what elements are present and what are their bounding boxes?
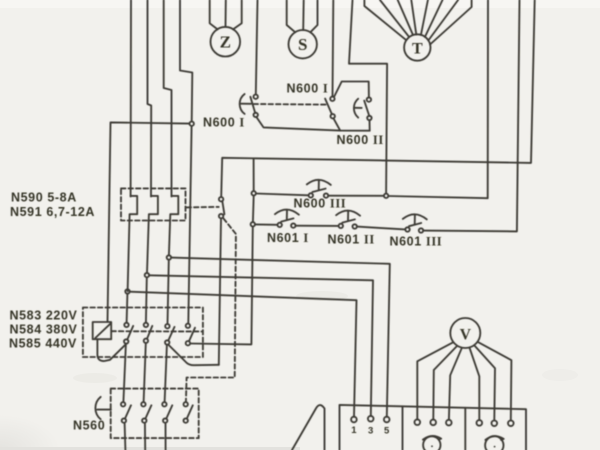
voltage selector N583 dashed box: [83, 308, 203, 358]
N560 switch T4 blade: [187, 405, 193, 418]
terminal box assembly: [340, 405, 527, 450]
N560 switch T2 bottom contact: [142, 418, 146, 422]
main lever symbol: [292, 405, 325, 450]
right line R3 (to trip-switch horizontal): [221, 0, 535, 197]
trip switch blade: [222, 201, 224, 214]
mechanical dashed link N600 I left to middle: [254, 103, 327, 106]
switch N600 II actuator tick: [355, 107, 362, 109]
paper shading: [0, 0, 1, 1]
switch N601 II actuator: [336, 211, 360, 221]
wire S1 bottom down to N560: [123, 344, 126, 403]
node F (E1 output junction): [125, 289, 129, 293]
switch block N560 dashed box: [111, 389, 199, 439]
dashed trip linkage N590 to trip switch: [187, 206, 219, 209]
selector switch S4 top contact: [186, 324, 190, 328]
voltmeter terminal f: [508, 421, 514, 427]
selector switch S1 bottom contact: [124, 339, 128, 343]
wire L2 (phase line into overload element E2, jog): [148, 0, 152, 197]
svg-text:N591 6,7-12A: N591 6,7-12A: [10, 205, 95, 219]
switch N601 III right contact: [419, 228, 423, 232]
switch N600 III right contact: [324, 193, 328, 197]
scan smudges: [296, 291, 348, 301]
vertical from node C down to N583 switch4 bottom wire: [190, 227, 253, 345]
switch N600 I (middle) blade: [325, 99, 332, 115]
wire N600 I middle top to N600 II top: [334, 82, 369, 98]
voltmeter terminal a: [415, 419, 421, 425]
wire S3 bottom down to N560: [165, 345, 167, 403]
N560 switch T4 bottom contact: [184, 418, 188, 422]
N560 switch T2 top contact: [141, 402, 145, 406]
switch N601 II blade: [342, 219, 355, 222]
branch diagonal up to N600 I (middle) bottom contact: [333, 118, 340, 130]
N600 III row wire right: [328, 195, 384, 197]
node B (junction above N600 III row): [252, 191, 256, 195]
switch N600 I (middle) bottom contact: [331, 114, 335, 118]
wire S3 bottom to trip-switch vertical: [168, 345, 219, 366]
wire from node A to voltage-selector square: [108, 122, 190, 321]
N560 switch T1 bottom contact: [122, 418, 126, 422]
selector switch S3 blade: [168, 327, 174, 341]
switch N601 I right contact: [291, 223, 295, 227]
motor Z: [211, 27, 241, 57]
motor Z leads: [210, 0, 218, 29]
wire from N600 I (left) bottom contact to bottom rail: [256, 117, 369, 131]
N560 switch T3 bottom contact: [163, 418, 167, 422]
wire L4 lower segment (node A down to N583 switch 4 top): [188, 126, 191, 324]
motor S leads: [287, 0, 296, 32]
long wire 1: node D to terminal 5: [171, 258, 390, 417]
svg-text:T: T: [412, 41, 423, 58]
wire square bottom U-turn to switch1 bottom: [97, 339, 125, 361]
transformer T: [404, 34, 430, 60]
N560 switch T1 top contact: [121, 402, 125, 406]
branch from R3 horizontal down to node B: [253, 158, 255, 191]
selector switch S3 bottom contact: [165, 340, 169, 344]
svg-text:N584 380V: N584 380V: [10, 323, 78, 337]
voltmeter lead 6: [478, 342, 511, 420]
svg-text:N600 II: N600 II: [337, 133, 384, 147]
voltmeter terminal e: [492, 421, 498, 427]
node C (junction on N601 row): [251, 222, 255, 226]
switch N601 III blade: [409, 223, 421, 226]
voltmeter V: [450, 318, 480, 348]
wire node F down to N583 switch1: [126, 294, 129, 323]
selector switch S4 blade: [189, 328, 195, 342]
switch N601 I actuator: [275, 210, 299, 220]
right line R2 (to N601 row): [423, 0, 519, 231]
switch N600 II actuator arc: [354, 99, 358, 118]
knob 1: [423, 436, 440, 450]
wire S2 bottom down to N560: [144, 343, 146, 402]
wire to N600 I middle top contact: [332, 0, 335, 97]
selector square diagonal: [95, 323, 111, 338]
overload relay N590 dashed box: [121, 188, 186, 220]
N601 row wire: N601 II to N601 III: [357, 227, 405, 230]
long wire 2: node E to terminal 3: [149, 275, 373, 416]
N560 switch T4 top contact: [184, 402, 188, 406]
wire node E down to N583 switch2: [145, 277, 148, 323]
switch N600 I (left) blade: [250, 97, 255, 113]
N560 switch T3 blade: [166, 405, 172, 418]
switch N600 I (middle) top contact: [330, 97, 334, 101]
switch N601 II right contact: [353, 224, 357, 228]
svg-text:N601 III: N601 III: [390, 235, 443, 249]
node A: [190, 122, 194, 126]
selector switch S4 bottom contact: [186, 341, 190, 345]
svg-text:N583 220V: N583 220V: [10, 309, 78, 323]
terminal 3: [368, 416, 374, 422]
node D (E3 output junction): [167, 255, 171, 259]
svg-text:V: V: [460, 327, 472, 344]
wire T3 bottom to page bottom: [165, 423, 167, 450]
N601 row wire: N601 I to N601 II: [296, 225, 339, 227]
svg-text:5: 5: [384, 426, 390, 437]
heater element E1: [128, 196, 138, 291]
voltmeter terminal d: [477, 420, 483, 426]
terminal 5: [384, 417, 390, 423]
voltmeter terminal c: [446, 420, 452, 426]
right line R1 (to horizontal at y198): [388, 0, 488, 198]
node G (junction N600 III row / N600 II feeder): [384, 194, 388, 198]
svg-text:N601 I: N601 I: [267, 231, 309, 245]
switch N600 I (left) actuator arc: [240, 94, 245, 114]
svg-text:N560: N560: [73, 419, 105, 433]
svg-text:N585 440V: N585 440V: [9, 337, 77, 351]
svg-text:N590 5-8A: N590 5-8A: [11, 191, 77, 205]
wire T2 bottom to page bottom: [144, 423, 146, 450]
switch N600 I (left) actuator tick: [241, 103, 251, 105]
knob 1 arrow arc: [423, 436, 441, 440]
wire node D down to N583 switch3: [168, 260, 169, 324]
N560 actuator arc: [95, 397, 100, 419]
switch N601 III left contact: [405, 227, 409, 231]
N560 switch T2 blade: [145, 405, 151, 418]
voltmeter lead 4: [470, 349, 480, 420]
wire L4 (line to node A and selector switch S4, jog): [180, 0, 192, 122]
switch N601 II left contact: [339, 224, 343, 228]
trip switch top contact: [219, 197, 223, 201]
selector square (voltage tap block): [93, 322, 112, 339]
switch N600 III blade: [312, 189, 325, 192]
trip switch bottom contact: [219, 214, 223, 218]
motor S: [289, 30, 317, 58]
N560 switch T1 blade: [125, 405, 131, 418]
svg-text:Z: Z: [220, 33, 231, 52]
svg-text:S: S: [298, 35, 307, 54]
voltmeter lead 1: [417, 342, 453, 419]
wire T1 bottom to page bottom: [124, 423, 127, 450]
svg-text:N600 I: N600 I: [203, 116, 245, 130]
selector switch S1 top contact: [124, 323, 128, 327]
terminal box divider 2: [464, 408, 466, 450]
heater element E2: [147, 196, 158, 273]
wire from top to N600 II feeder corner: [349, 0, 387, 194]
switch N600 I (left) bottom contact: [254, 113, 258, 117]
switch N600 III left contact: [309, 193, 313, 197]
terminal 1: [351, 417, 357, 423]
switch N600 III actuator: [307, 180, 331, 190]
svg-text:1: 1: [351, 425, 357, 436]
long wire 3: node F to terminal 1: [130, 292, 357, 417]
terminal box divider 1: [402, 406, 404, 450]
voltmeter lead 5: [475, 346, 495, 420]
svg-text:3: 3: [368, 426, 373, 437]
N560 switch T3 top contact: [162, 402, 166, 406]
switch N601 I blade: [281, 218, 293, 221]
dashed trip linkage down to N560: [186, 219, 236, 402]
switch N600 I (left) top contact: [254, 95, 258, 99]
knob 2 arrow arc: [485, 436, 503, 440]
N601 row wire: node C to N601 I: [255, 223, 278, 225]
heater element E3: [169, 196, 178, 255]
selector switch S2 top contact: [144, 323, 148, 327]
wire below trip switch down to corner: [219, 218, 221, 364]
voltmeter lead 2: [433, 347, 456, 420]
wire to N600 I left top contact: [256, 0, 258, 95]
knob 2: [485, 436, 503, 450]
wire L1 (phase line into overload element E1): [130, 0, 132, 197]
selector switch S2 bottom contact: [144, 339, 148, 343]
transformer T leads (fan): [364, 0, 406, 40]
selector switch S1 blade: [127, 326, 133, 340]
switch N600 II blade: [364, 101, 369, 116]
dashed selector coupling line: [111, 330, 202, 332]
wire L3 (phase line into overload element E3, jog): [164, 0, 172, 197]
switch N601 III actuator: [403, 214, 427, 224]
voltmeter terminal b: [430, 420, 436, 426]
vertical between node B and node C: [252, 196, 255, 223]
switch N600 II bottom contact: [367, 116, 371, 120]
selector switch S3 top contact: [165, 324, 169, 328]
node E (E2 output junction): [145, 273, 149, 277]
svg-text:N601 II: N601 II: [328, 233, 375, 247]
svg-text:N600 I: N600 I: [287, 82, 329, 96]
svg-text:N600 III: N600 III: [294, 197, 347, 211]
switch N601 I left contact: [278, 223, 282, 227]
N600 III row wire left: [256, 194, 309, 196]
switch N600 II top contact: [367, 97, 371, 101]
selector switch S2 blade: [147, 326, 152, 339]
voltmeter lead 3: [449, 349, 462, 420]
N560 actuator tick: [97, 409, 111, 411]
